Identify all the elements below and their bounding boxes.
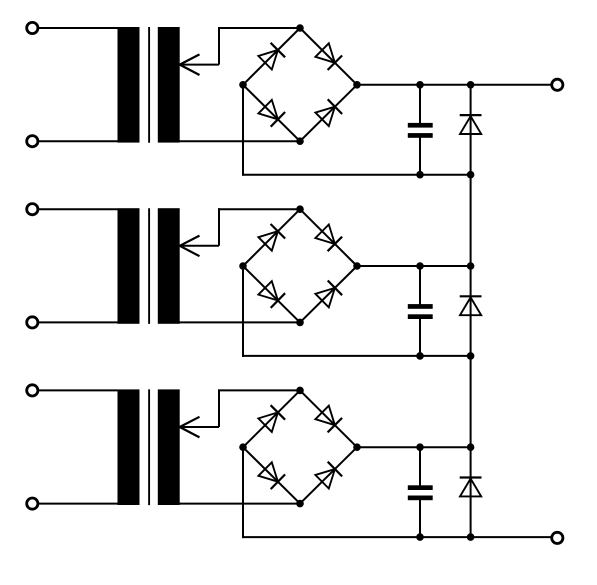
node - bridge 3 left (DC-) [239, 443, 247, 451]
diode D6 [315, 225, 335, 245]
wire - stage 1 secondary tap shaft [180, 64, 219, 66]
diode D22 cathode bar [460, 476, 482, 478]
node - bridge 1 bottom (AC) [296, 137, 304, 145]
wire - C2 bottom lead [419, 318, 421, 356]
junction - C2 bottom [416, 352, 424, 360]
diode D7 [258, 281, 278, 300]
node - bridge 3 top (AC) [296, 387, 304, 395]
wire - stage 2 positive rail [357, 265, 471, 267]
diode D4 [315, 107, 335, 126]
wire - C3 top lead [419, 447, 421, 486]
wire - stage 3 tap to bridge top [218, 389, 300, 391]
wire - stage 1 positive rail [357, 84, 551, 86]
wire - stage 2 negative rail [242, 355, 471, 357]
wire - stage 3 tap riser [218, 389, 220, 427]
wire - bridge 1 upper-right arm [300, 28, 357, 85]
transformer T2 secondary winding [158, 208, 180, 324]
capacitor C1 [408, 123, 433, 128]
junction - D18 top [467, 262, 475, 270]
wire - stage 2 tap riser [218, 208, 220, 246]
capacitor C2 [408, 304, 433, 309]
wire - bridge 2 lower-left arm [243, 266, 300, 322]
diode D22 triangle [460, 479, 481, 497]
junction - C1 top [416, 81, 424, 89]
wire - C3 bottom lead [419, 500, 421, 538]
wire - stage 2 negative drop [242, 266, 244, 357]
diode D2 [315, 43, 335, 63]
diode D12 [315, 469, 335, 488]
wire - bridge 2 upper-right arm [300, 209, 357, 266]
diode D10 [315, 406, 335, 426]
transformer T1 core [148, 27, 150, 143]
wire - stage 3 negative drop [242, 447, 244, 538]
input terminal J4 [27, 317, 38, 328]
wire - bridge 3 upper-left arm [243, 390, 300, 447]
wire - bridge 3 upper-right arm [300, 390, 357, 447]
transformer T3 core [148, 389, 150, 505]
junction - C2 top [416, 262, 424, 270]
node - bridge 2 bottom (AC) [296, 319, 304, 327]
wire - stage 3 negative rail [242, 536, 551, 538]
wire - stage 2 primary top lead [32, 208, 117, 210]
wire - stage 2 primary bottom lead [32, 321, 117, 323]
wire - bridge 2 lower-right arm [300, 266, 357, 322]
node - bridge 2 left (DC-) [239, 262, 247, 270]
wire - C2 top lead [419, 266, 421, 305]
wire - stage 1 tap to bridge top [218, 27, 300, 29]
node - bridge 3 bottom (AC) [296, 500, 304, 508]
input terminal J6 [27, 498, 38, 509]
transformer T2 primary winding [118, 208, 140, 324]
node - bridge 1 left (DC-) [239, 81, 247, 89]
junction - C3 top [416, 443, 424, 451]
diode D11 [258, 462, 278, 481]
node - bridge 3 right (DC+) [353, 443, 361, 451]
wire - stage 3 primary top lead [32, 389, 117, 391]
wire - bridge 3 lower-left arm [243, 447, 300, 503]
wire - C1 top lead [419, 85, 421, 124]
wire - stage 1 primary bottom lead [32, 140, 117, 142]
transformer T1 tap arrowhead [180, 54, 200, 64]
transformer T1 primary winding [118, 27, 140, 143]
wire - stage 2 secondary tap shaft [180, 245, 219, 247]
wire - stage 3 primary bottom lead [32, 503, 117, 505]
output terminal -OUT [552, 532, 563, 543]
wire - bridge 1 upper-left arm [243, 28, 300, 85]
diode D3 [258, 100, 278, 119]
diode D14 triangle [460, 116, 481, 134]
diode D1 [258, 50, 278, 70]
wire - stage 2 tap to bridge top [218, 208, 300, 210]
node - bridge 1 right (DC+) [353, 81, 361, 89]
input terminal J5 [27, 385, 38, 396]
wire - bridge 2 upper-left arm [243, 209, 300, 266]
transformer T2 tap arrowhead [180, 236, 200, 246]
diode D5 [258, 231, 278, 251]
diode D9 [258, 412, 278, 432]
transformer T3 secondary winding [158, 389, 180, 505]
wire - stage 1 tap riser [218, 27, 220, 65]
wire - series stack column [470, 85, 472, 537]
diode D18 cathode bar [460, 295, 482, 297]
junction - D14 bottom [467, 171, 475, 179]
wire - bridge 1 lower-right arm [300, 85, 357, 141]
wire - stage 1 negative drop [242, 85, 244, 176]
transformer T3 primary winding [118, 389, 140, 505]
wire - C1 bottom lead [419, 137, 421, 175]
wire - stage 2 secondary bottom to bridge [176, 321, 300, 323]
wire - stage 3 secondary tap shaft [180, 426, 219, 428]
junction - C1 bottom [416, 171, 424, 179]
transformer T3 tap arrowhead [180, 417, 200, 427]
wire - stage 3 secondary bottom to bridge [176, 503, 300, 505]
output terminal +OUT [552, 79, 563, 90]
wire - stage 3 positive rail [357, 446, 471, 448]
wire - stage 1 primary top lead [32, 27, 117, 29]
node - bridge 2 right (DC+) [353, 262, 361, 270]
wire - stage 1 secondary bottom to bridge [176, 140, 300, 142]
wire - bridge 3 lower-right arm [300, 447, 357, 503]
transformer T2 core [148, 208, 150, 324]
junction - C3 bottom [416, 533, 424, 541]
diode D14 cathode bar [460, 114, 482, 116]
capacitor C3 [408, 485, 433, 490]
junction - D22 bottom [467, 533, 475, 541]
diode D8 [315, 288, 335, 307]
input terminal J1 [27, 22, 38, 33]
diode D18 triangle [460, 297, 481, 315]
wire - stage 1 negative rail [242, 174, 471, 176]
junction - D14 top [467, 81, 475, 89]
transformer T1 secondary winding [158, 27, 180, 143]
input terminal J3 [27, 204, 38, 215]
junction - D18 bottom [467, 352, 475, 360]
junction - D22 top [467, 443, 475, 451]
input terminal J2 [27, 136, 38, 147]
wire - bridge 1 lower-left arm [243, 85, 300, 141]
node - bridge 1 top (AC) [296, 24, 304, 32]
node - bridge 2 top (AC) [296, 205, 304, 213]
